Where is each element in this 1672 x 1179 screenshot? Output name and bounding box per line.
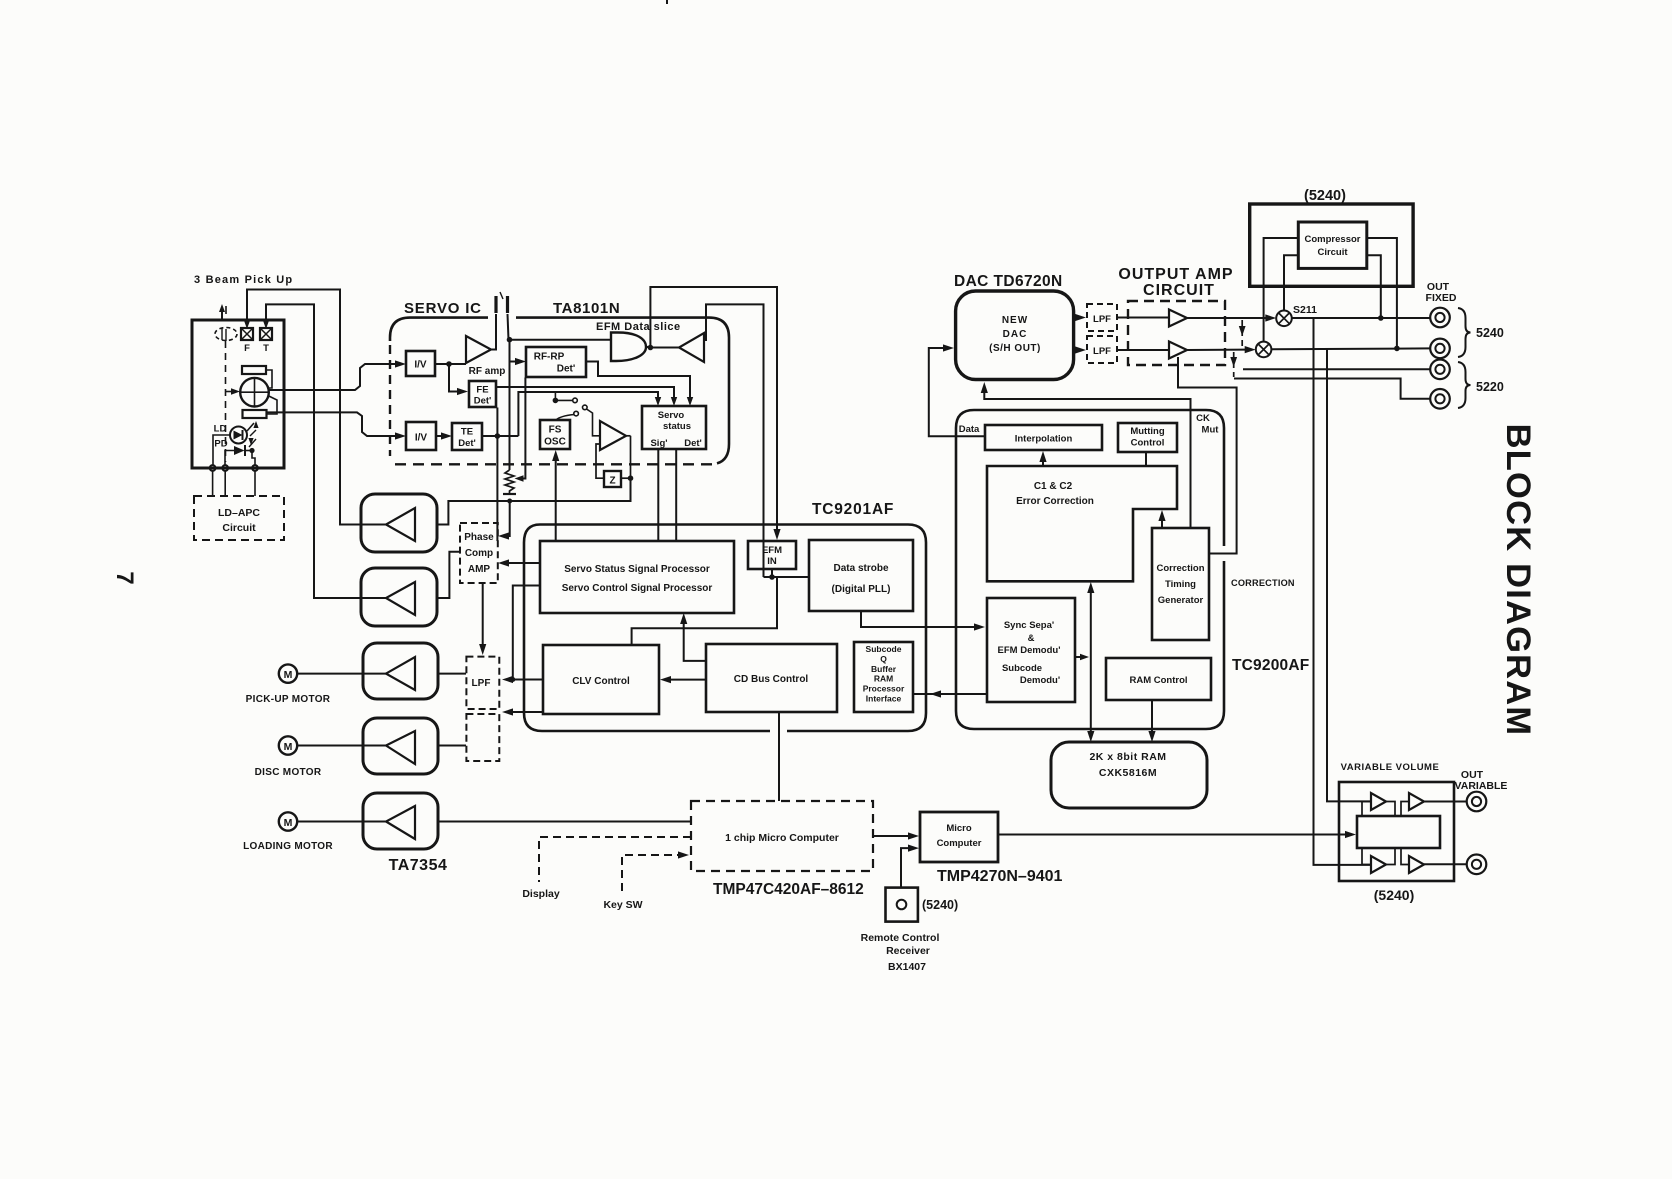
data strobe box bbox=[809, 540, 913, 611]
I/V converter 2 bbox=[406, 422, 436, 450]
svg-text:I/V: I/V bbox=[414, 360, 427, 371]
svg-text:Demodu': Demodu' bbox=[1020, 675, 1060, 686]
mutting control box bbox=[1118, 423, 1177, 452]
wire amp2 to mixer2 bbox=[1187, 349, 1246, 351]
pickup unit box bbox=[192, 320, 284, 468]
svg-text:BLOCK DIAGRAM: BLOCK DIAGRAM bbox=[1499, 424, 1537, 737]
wire CLV to LPF lower bbox=[512, 711, 543, 713]
svg-text:T: T bbox=[263, 343, 269, 354]
mute dashed arrow 2 bbox=[1233, 352, 1235, 377]
svg-text:RF-RP: RF-RP bbox=[534, 352, 565, 363]
svg-text:(5240): (5240) bbox=[1304, 188, 1346, 204]
wire 1chip to micro computer bbox=[873, 835, 910, 837]
wire I/V2 to TE det bbox=[436, 435, 444, 437]
CD bus control box bbox=[706, 644, 837, 712]
objective lens dashed ellipse bbox=[215, 328, 237, 341]
svg-text:Mut: Mut bbox=[1202, 425, 1220, 436]
output amp dashed box bbox=[1128, 301, 1225, 365]
wire mixer2 to connector C2 bbox=[1271, 347, 1430, 350]
wire TE junction node bbox=[495, 433, 501, 439]
wire mutting to C1C2 bbox=[1145, 452, 1147, 466]
drive amp 3 triangle bbox=[386, 657, 415, 690]
servo error amp triangle bbox=[600, 421, 626, 450]
svg-text:IN: IN bbox=[767, 556, 777, 567]
scan speck bbox=[666, 0, 668, 4]
wire micro to variable volume bbox=[998, 834, 1348, 836]
brace 5220 bbox=[1458, 362, 1471, 408]
FS OSC box bbox=[540, 420, 570, 449]
svg-text:1 chip Micro Computer: 1 chip Micro Computer bbox=[725, 832, 839, 844]
wire into RF-RP det bbox=[510, 361, 517, 363]
wire I/V1 output node bbox=[435, 363, 466, 365]
wire amp1 to S211 mixer bbox=[1187, 317, 1266, 319]
wire RAM control to RAM bbox=[1151, 700, 1153, 735]
drive amp 2 triangle bbox=[386, 582, 415, 615]
wire focus drive to amp1 bbox=[438, 478, 631, 524]
wire LPF2 to out amp2 bbox=[1117, 349, 1169, 351]
wire LD lead bbox=[213, 435, 230, 465]
wire LPF lower to disc motor amp bbox=[438, 745, 466, 747]
svg-text:Subcode: Subcode bbox=[1002, 663, 1042, 674]
svg-text:FE: FE bbox=[476, 385, 488, 396]
wire LPF to pickup motor amp bbox=[438, 673, 466, 675]
wire CK Mut to DAC bottom bbox=[984, 390, 1190, 528]
svg-text:Servo: Servo bbox=[658, 410, 685, 421]
receiver lens circle bbox=[897, 900, 907, 910]
vv amp 4 bbox=[1409, 856, 1424, 873]
wire sync sepa to RAM bus bbox=[1075, 656, 1083, 658]
svg-text:Circuit: Circuit bbox=[1317, 247, 1348, 258]
wire PD cathode lead bbox=[252, 453, 255, 465]
svg-text:TE: TE bbox=[461, 427, 473, 438]
svg-text:DAC TD6720N: DAC TD6720N bbox=[954, 273, 1063, 290]
LPF dashed box bbox=[466, 657, 499, 709]
wire buffer input from EFM node bbox=[704, 304, 764, 577]
servo feeder line 1 bbox=[518, 392, 658, 436]
svg-text:BX1407: BX1407 bbox=[888, 961, 926, 973]
pick-up motor M bbox=[279, 664, 297, 682]
wire TE junction to servo processor bbox=[496, 436, 498, 541]
svg-text:Data strobe: Data strobe bbox=[833, 563, 888, 574]
wire terminal1 to LD-APC bbox=[212, 471, 214, 496]
RAM control box bbox=[1106, 658, 1211, 700]
wire lower collimator to right bbox=[267, 396, 278, 414]
wire compressor right to C2 line bbox=[1367, 238, 1397, 348]
svg-text:FS: FS bbox=[549, 425, 562, 436]
wire servo ctrl to LPF bbox=[513, 586, 540, 680]
2K RAM box bbox=[1051, 742, 1207, 808]
beam splitter circle bbox=[240, 378, 269, 407]
S211 mixer bbox=[1276, 311, 1292, 327]
svg-text:Det': Det' bbox=[557, 364, 576, 375]
LD-APC circuit dashed box bbox=[194, 496, 284, 540]
LPF lower dashed section bbox=[466, 714, 499, 761]
output amp 1 triangle bbox=[1169, 310, 1187, 327]
feedback buffer triangle bbox=[679, 333, 704, 362]
servo IC box outline bbox=[516, 318, 729, 464]
connector C4 bbox=[1430, 389, 1450, 409]
wire node to FE det bbox=[449, 364, 458, 392]
wire terminal3 to LD-APC bbox=[254, 471, 256, 496]
wire CD bus to CLV bbox=[670, 679, 706, 681]
switch contact c bbox=[574, 411, 579, 416]
wire node down to RF-RP and resistor bbox=[509, 340, 511, 470]
wire tracking coil T from amp bbox=[266, 304, 386, 598]
svg-text:Compressor: Compressor bbox=[1305, 234, 1361, 245]
svg-text:Servo Status Signal Processor: Servo Status Signal Processor bbox=[564, 564, 710, 575]
drive amp box 4 bbox=[363, 718, 438, 774]
drive amp 1 triangle bbox=[386, 508, 415, 541]
svg-text:C1 & C2: C1 & C2 bbox=[1034, 481, 1073, 492]
laser diode LD bbox=[230, 427, 247, 444]
svg-text:Key SW: Key SW bbox=[603, 899, 642, 911]
svg-text:TC9201AF: TC9201AF bbox=[812, 501, 894, 518]
drive amp 5 triangle bbox=[386, 806, 415, 839]
svg-text:Interface: Interface bbox=[866, 694, 902, 704]
svg-text:LD: LD bbox=[214, 424, 227, 435]
svg-text:EFM Data slice: EFM Data slice bbox=[596, 321, 681, 333]
svg-text:PD: PD bbox=[214, 439, 227, 450]
drive amp box 2 bbox=[361, 568, 437, 626]
1 chip micro computer dashed box bbox=[691, 801, 873, 871]
sync sepa demod box bbox=[987, 598, 1075, 702]
svg-text:Timing: Timing bbox=[1165, 579, 1196, 590]
svg-text:RF amp: RF amp bbox=[469, 366, 506, 377]
svg-text:status: status bbox=[663, 421, 691, 432]
photo diode PD bbox=[234, 446, 245, 455]
svg-text:CD Bus Control: CD Bus Control bbox=[734, 674, 809, 685]
svg-text:Mutting: Mutting bbox=[1130, 426, 1164, 437]
svg-text:CK: CK bbox=[1196, 413, 1210, 424]
terminal 1 bbox=[210, 465, 216, 471]
LD emission arrows bbox=[247, 423, 254, 431]
wire DAC to LPF2 bbox=[1074, 349, 1078, 351]
TC9201AF box bbox=[524, 525, 926, 732]
wire phase comp to LPF bbox=[482, 583, 484, 647]
vv amp 1 bbox=[1371, 793, 1386, 810]
LPF dashed box 1 bbox=[1087, 304, 1117, 331]
tracking coil T bbox=[260, 328, 272, 340]
LPF dashed box 2 bbox=[1087, 336, 1117, 363]
svg-text:LD–APC: LD–APC bbox=[218, 507, 260, 519]
svg-text:LPF: LPF bbox=[1093, 314, 1111, 325]
svg-text:3 Beam Pick Up: 3 Beam Pick Up bbox=[194, 274, 293, 286]
wire fixed line to vv upper bbox=[1327, 349, 1371, 801]
wire compressor to mixer2 bbox=[1264, 238, 1299, 342]
wire EFM node to CLV top bbox=[632, 577, 777, 645]
svg-text:Display: Display bbox=[522, 888, 560, 900]
terminal 2 bbox=[222, 465, 228, 471]
svg-text:S211: S211 bbox=[1293, 304, 1317, 316]
wire vv to out variable top bbox=[1424, 801, 1467, 803]
wire RF amp to capacitor bbox=[491, 314, 496, 350]
svg-text:EFM Demodu': EFM Demodu' bbox=[998, 645, 1061, 656]
svg-text:Circuit: Circuit bbox=[222, 522, 256, 534]
out variable connector top bbox=[1467, 792, 1487, 812]
svg-text:Processor: Processor bbox=[863, 684, 905, 694]
RAM data bus bbox=[1090, 589, 1092, 735]
switch contact b bbox=[583, 405, 588, 410]
arrow into beam splitter bbox=[226, 391, 232, 393]
svg-text:Det': Det' bbox=[474, 396, 492, 407]
svg-text:M: M bbox=[284, 741, 293, 753]
wire CTG to C1C2 bbox=[1161, 517, 1163, 528]
wire LPF to CLV bbox=[512, 679, 543, 681]
variable volume box bbox=[1339, 782, 1454, 881]
out variable connector bottom bbox=[1467, 855, 1487, 875]
svg-text:M: M bbox=[284, 817, 293, 829]
svg-text:Generator: Generator bbox=[1158, 595, 1204, 606]
svg-text:Computer: Computer bbox=[937, 838, 982, 849]
collimator plate upper bbox=[242, 366, 266, 374]
svg-text:NEW: NEW bbox=[1002, 315, 1028, 326]
wire amp4 to disc motor bbox=[297, 745, 386, 747]
wire compressor right to C1 line bbox=[1367, 255, 1381, 318]
disc motor M bbox=[279, 736, 297, 754]
svg-text:Sig': Sig' bbox=[650, 438, 667, 449]
label Data bbox=[955, 421, 983, 434]
RF-RP detector box bbox=[526, 347, 586, 377]
wire micro to loading amp bbox=[438, 821, 691, 823]
mixer 2 bbox=[1256, 342, 1272, 358]
wire DAC to LPF1 bbox=[1074, 317, 1078, 319]
svg-text:(5240): (5240) bbox=[1374, 887, 1414, 903]
brace 5240 bbox=[1458, 308, 1471, 357]
PD incident arrows bbox=[249, 439, 256, 447]
svg-text:RAM Control: RAM Control bbox=[1129, 675, 1187, 686]
svg-text:LPF: LPF bbox=[1093, 346, 1111, 357]
remote control receiver box bbox=[886, 888, 918, 922]
vv inner attenuator bbox=[1357, 816, 1440, 848]
svg-text:Q: Q bbox=[880, 654, 887, 664]
wire receiver to micro bbox=[901, 848, 910, 888]
wire vv to out variable bottom bbox=[1424, 863, 1467, 865]
svg-text:Subcode: Subcode bbox=[866, 644, 902, 654]
svg-text:OUTPUT AMP: OUTPUT AMP bbox=[1118, 266, 1233, 283]
compressor circuit box bbox=[1298, 222, 1367, 268]
svg-text:Correction: Correction bbox=[1156, 563, 1204, 574]
servo signal processor box bbox=[540, 541, 734, 613]
wire CD bus to micro computer bbox=[778, 712, 780, 801]
wire amp3 to pickup motor bbox=[297, 673, 386, 675]
subcode interface box bbox=[854, 642, 913, 712]
wire compressor to S211 bbox=[1284, 255, 1298, 310]
wire fixed line to vv lower bbox=[1314, 318, 1372, 865]
I/V converter 1 bbox=[406, 351, 435, 376]
NEW DAC box bbox=[956, 291, 1074, 380]
terminal 3 bbox=[252, 465, 258, 471]
key SW dashed wire bbox=[622, 855, 680, 891]
wire photodiode to I/V2 bbox=[267, 412, 398, 436]
vv amp 2 bbox=[1409, 793, 1424, 810]
wire Z to amp output node bbox=[621, 477, 631, 479]
svg-text:(S/H OUT): (S/H OUT) bbox=[989, 343, 1041, 354]
wire data strobe to sync sepa bbox=[861, 611, 977, 627]
EFM IN box bbox=[748, 541, 796, 569]
svg-text:TA8101N: TA8101N bbox=[553, 300, 620, 317]
vv amp 3 bbox=[1371, 856, 1386, 873]
wire S211 to connector C1 bbox=[1292, 317, 1431, 319]
wire PD lead bbox=[225, 451, 234, 466]
svg-text:SERVO IC: SERVO IC bbox=[404, 300, 482, 317]
connector C1 bbox=[1430, 308, 1450, 328]
drive amp 4 triangle bbox=[386, 731, 415, 764]
svg-text:CLV Control: CLV Control bbox=[572, 676, 630, 687]
variable resistor bbox=[505, 470, 514, 494]
svg-text:FIXED: FIXED bbox=[1426, 292, 1457, 304]
wire to connector C4 bbox=[1234, 379, 1430, 399]
svg-text:Buffer: Buffer bbox=[871, 664, 897, 674]
compressor outer box 5240 bbox=[1250, 204, 1413, 286]
C1 C2 error correction box bbox=[987, 466, 1177, 581]
svg-text:(Digital PLL): (Digital PLL) bbox=[832, 584, 891, 595]
wire servo status out 1 bbox=[657, 449, 659, 541]
svg-text:2K x 8bit RAM: 2K x 8bit RAM bbox=[1089, 751, 1166, 763]
vv wiring bottom bbox=[1362, 848, 1371, 865]
FE detector box bbox=[469, 381, 496, 407]
svg-text:TC9200AF: TC9200AF bbox=[1232, 657, 1309, 674]
wire splitter to upper collimator bbox=[266, 370, 272, 388]
wire splitter to I/V1 bbox=[269, 364, 397, 390]
loading motor M bbox=[279, 812, 297, 830]
wire data to DAC bbox=[929, 348, 985, 436]
wire FE det bottom to junction bbox=[496, 408, 498, 437]
micro computer box bbox=[920, 812, 998, 862]
svg-text:OSC: OSC bbox=[544, 437, 566, 448]
servo status box bbox=[642, 406, 706, 449]
svg-text:EFM: EFM bbox=[762, 545, 782, 556]
wire C1C2 to interpolation bbox=[1042, 458, 1044, 466]
svg-text:Comp: Comp bbox=[465, 548, 493, 559]
svg-text:Interpolation: Interpolation bbox=[1015, 434, 1073, 445]
wire EFM IN to data strobe bbox=[771, 569, 773, 577]
svg-text:VARIABLE VOLUME: VARIABLE VOLUME bbox=[1341, 762, 1440, 773]
svg-text:Data: Data bbox=[959, 424, 980, 435]
svg-text:Z: Z bbox=[609, 476, 615, 487]
svg-text:LOADING MOTOR: LOADING MOTOR bbox=[243, 841, 333, 852]
TE detector box bbox=[452, 423, 482, 450]
svg-text:F: F bbox=[244, 343, 250, 354]
wire capacitor to node bbox=[508, 314, 509, 340]
drive amp box 5 bbox=[363, 793, 438, 849]
vv wiring top bbox=[1362, 802, 1371, 817]
wire CD bus to servo proc bbox=[684, 621, 706, 661]
connector C3 bbox=[1430, 360, 1450, 380]
servo feeder line 3 bbox=[586, 362, 690, 399]
svg-text:TA7354: TA7354 bbox=[389, 857, 448, 874]
svg-text:&: & bbox=[1028, 633, 1035, 644]
wire focus coil F from amp bbox=[247, 290, 386, 525]
wire slice output up and to EFM IN bbox=[646, 287, 777, 532]
wire LPF1 to out amp1 bbox=[1117, 317, 1169, 319]
svg-text:CIRCUIT: CIRCUIT bbox=[1143, 282, 1215, 299]
svg-text:Phase: Phase bbox=[464, 532, 494, 543]
wire buffer output to slice node bbox=[650, 347, 679, 349]
wire phase comp to amp2 bbox=[437, 552, 460, 598]
svg-text:I/V: I/V bbox=[415, 433, 428, 444]
svg-text:DISC MOTOR: DISC MOTOR bbox=[255, 767, 322, 778]
svg-text:RAM: RAM bbox=[874, 674, 893, 684]
collimator plate lower bbox=[243, 410, 267, 418]
svg-text:Det': Det' bbox=[684, 438, 702, 449]
correction timing generator box bbox=[1152, 528, 1209, 640]
wire amp5 to loading motor bbox=[297, 821, 386, 823]
svg-text:TMP47C420AF–8612: TMP47C420AF–8612 bbox=[713, 881, 864, 898]
svg-text:PICK-UP MOTOR: PICK-UP MOTOR bbox=[246, 694, 331, 705]
TC9200AF box bbox=[956, 410, 1224, 729]
wire servo status out 2 bbox=[675, 449, 677, 541]
svg-text:Sync Sepa': Sync Sepa' bbox=[1004, 620, 1054, 631]
wire to connector C3 bbox=[1243, 368, 1430, 370]
svg-text:Micro: Micro bbox=[946, 823, 972, 834]
output amp 2 triangle bbox=[1169, 342, 1187, 359]
svg-text:VARIABLE: VARIABLE bbox=[1455, 780, 1508, 792]
svg-text:CXK5816M: CXK5816M bbox=[1099, 767, 1157, 779]
wire servo proc to phase comp bbox=[508, 562, 540, 564]
svg-text:5240: 5240 bbox=[1476, 326, 1504, 340]
connector C2 bbox=[1430, 339, 1450, 359]
svg-text:DAC: DAC bbox=[1003, 329, 1028, 340]
svg-text:5220: 5220 bbox=[1476, 380, 1504, 394]
svg-text:TMP4270N–9401: TMP4270N–9401 bbox=[937, 868, 1063, 885]
svg-text:7: 7 bbox=[111, 571, 138, 584]
CLV control box bbox=[543, 645, 659, 714]
Z block bbox=[604, 471, 621, 487]
svg-text:Det': Det' bbox=[458, 438, 476, 449]
wire output amp to correction timing bbox=[1178, 357, 1237, 554]
wire terminal2 to LD-APC bbox=[224, 471, 226, 496]
mute dashed arrow 1 bbox=[1241, 320, 1243, 348]
wire FS OSC clock input bbox=[555, 458, 557, 541]
svg-text:Receiver: Receiver bbox=[886, 945, 930, 957]
svg-text:AMP: AMP bbox=[468, 564, 491, 575]
drive amp box 3 bbox=[363, 643, 438, 699]
svg-text:LPF: LPF bbox=[472, 678, 491, 689]
svg-text:Servo Control Signal Processor: Servo Control Signal Processor bbox=[562, 583, 713, 594]
svg-text:(5240): (5240) bbox=[922, 898, 958, 912]
servo feeder line 2 bbox=[496, 387, 674, 398]
optical axis dashed line bbox=[225, 341, 227, 462]
wire RF-RP to resistor wiper bbox=[521, 378, 525, 479]
wire node to EFM data slice bbox=[510, 339, 612, 341]
switch contact a bbox=[573, 398, 578, 403]
svg-text:Error Correction: Error Correction bbox=[1016, 496, 1094, 507]
drive amp box 1 bbox=[361, 494, 437, 552]
focus coil F bbox=[241, 328, 253, 340]
phase comp amp dashed box bbox=[460, 523, 498, 583]
display dashed wire bbox=[539, 837, 691, 882]
EFM data slice comparator bbox=[611, 333, 646, 362]
coupling capacitor C1 bbox=[494, 296, 497, 313]
svg-text:M: M bbox=[284, 669, 293, 681]
wire drive branch to phase comp bbox=[506, 501, 510, 536]
interpolation box bbox=[985, 425, 1102, 450]
RF amp triangle bbox=[466, 336, 491, 363]
svg-text:CORRECTION: CORRECTION bbox=[1231, 578, 1295, 588]
svg-text:Remote Control: Remote Control bbox=[861, 932, 940, 944]
Z block feedback bbox=[596, 444, 604, 478]
wire subcode return bbox=[913, 693, 987, 695]
laser beam up arrow bbox=[221, 307, 223, 319]
svg-text:Control: Control bbox=[1131, 438, 1165, 449]
